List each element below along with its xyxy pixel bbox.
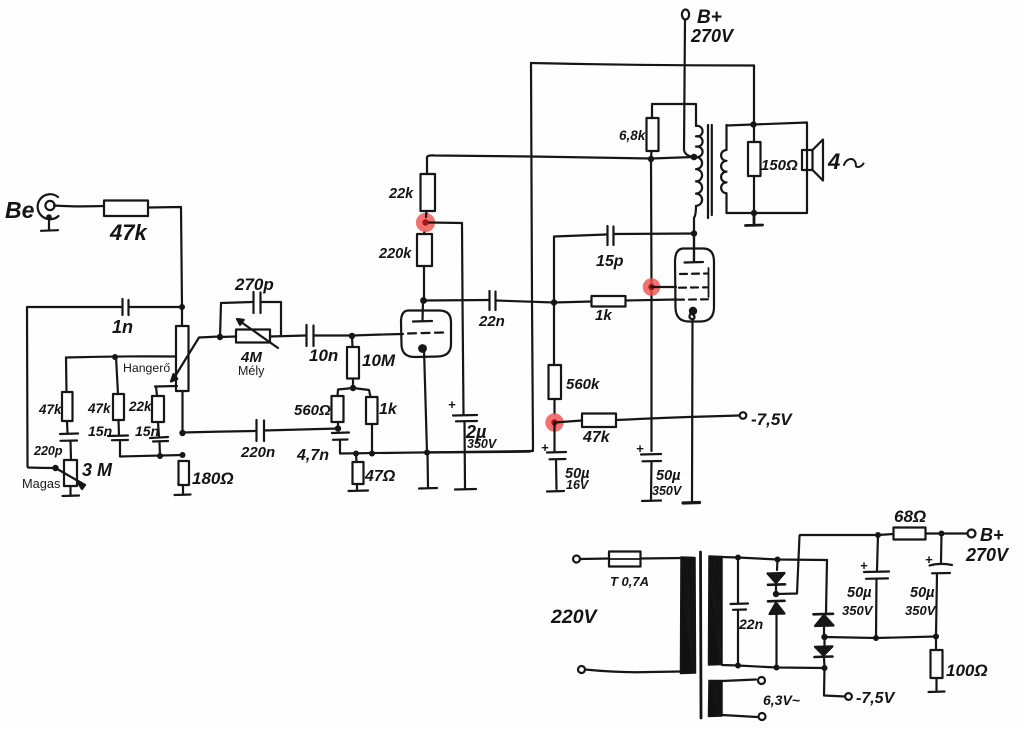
wire bias filter rail	[825, 637, 937, 639]
svg-text:16V: 16V	[566, 478, 590, 492]
wire g2 tap	[652, 286, 677, 288]
svg-text:22n: 22n	[738, 616, 763, 632]
wire bass loop top	[220, 302, 252, 337]
svg-text:-7,5V: -7,5V	[856, 690, 896, 707]
wire mains bottom to primary	[585, 670, 681, 673]
svg-text:B+: B+	[980, 525, 1004, 545]
resistor 22k branch3	[128, 386, 177, 422]
terminal heater top	[758, 677, 765, 684]
svg-text:+: +	[448, 397, 456, 412]
resistor 150ohm	[748, 125, 798, 213]
node 22k-220k red highlight	[416, 213, 435, 232]
wire decoupling node to 2u cap	[429, 223, 464, 415]
wire 4M to 10n	[270, 336, 306, 337]
resistor 10M	[347, 336, 396, 388]
capacitor 22n coupling	[478, 291, 505, 330]
capacitor 270p	[234, 275, 274, 313]
junction bottom rail right	[180, 452, 186, 458]
svg-text:6,8k: 6,8k	[619, 128, 647, 143]
ground V2 cathode	[683, 501, 700, 505]
wire V1 plate to coupling cap	[424, 299, 490, 302]
capacitor 50u 350V psu B	[905, 534, 952, 637]
svg-text:Mély: Mély	[238, 364, 265, 378]
junction grid node	[349, 333, 355, 339]
svg-text:47k: 47k	[109, 220, 148, 245]
terminal B+ 270V top	[682, 7, 735, 46]
svg-text:Magas: Magas	[22, 476, 60, 491]
capacitor 50u 350V psu A	[842, 535, 889, 638]
svg-text:22k: 22k	[388, 186, 414, 202]
capacitor 220n	[240, 420, 275, 461]
capacitor 15n branch2	[88, 420, 128, 456]
wire doubler output to B rail	[776, 535, 800, 594]
wire HV top rail	[722, 557, 827, 560]
junction 50u-a top	[875, 532, 881, 538]
ground speaker circuit	[746, 213, 763, 226]
ground treble pot	[63, 486, 80, 496]
node screen grid red highlight	[643, 278, 661, 296]
svg-text:47k: 47k	[87, 401, 112, 416]
wire 10n to grid node	[314, 334, 353, 336]
svg-text:270p: 270p	[234, 275, 274, 294]
junction volume bottom	[179, 430, 185, 436]
junction bass node	[217, 334, 223, 340]
terminal -7.5V bias	[740, 412, 747, 419]
capacitor 50u 16V	[541, 423, 590, 493]
svg-text:350V: 350V	[652, 484, 683, 498]
junction 4.7n-47ohm	[353, 451, 359, 457]
node A junction	[179, 304, 185, 310]
capacitor 4.7n	[296, 433, 349, 465]
junction transformer tap	[691, 154, 698, 161]
wire bias to terminal	[824, 668, 845, 697]
svg-text:350V: 350V	[467, 437, 498, 451]
capacitor 1n	[112, 299, 133, 337]
resistor 1k grid stopper	[554, 296, 677, 324]
wire mains top to fuse	[580, 557, 609, 560]
primary winding upper	[696, 105, 703, 158]
fuse T0.7A	[609, 552, 649, 590]
wire cathode bottom rail	[340, 451, 533, 454]
svg-text:Be: Be	[5, 197, 35, 223]
resistor 68ohm	[894, 507, 942, 540]
junction V2 grid circuit	[551, 299, 557, 305]
svg-text:560Ω: 560Ω	[294, 402, 331, 419]
svg-text:1k: 1k	[595, 307, 612, 324]
diode D2	[768, 601, 785, 668]
wire jack to R 47k	[54, 204, 104, 207]
svg-text:B+: B+	[697, 7, 722, 28]
wire V2 cathode to ground	[691, 319, 694, 501]
junction V1 plate	[420, 297, 427, 304]
resistor 47k input	[104, 201, 148, 217]
junction speaker bottom	[751, 210, 757, 216]
svg-text:15p: 15p	[596, 253, 624, 270]
capacitor 220p	[33, 421, 78, 460]
secondary winding	[721, 125, 726, 213]
svg-text:22k: 22k	[128, 399, 153, 414]
terminal mains top	[573, 556, 580, 563]
resistor 47k bias	[555, 414, 740, 447]
svg-text:6,3V~: 6,3V~	[763, 692, 800, 708]
ground V1 cathode	[419, 453, 437, 489]
wire R47k to node A	[148, 207, 182, 307]
diode D4	[815, 637, 833, 668]
resistor 47k branch2	[87, 357, 124, 420]
resistor 220k	[378, 232, 432, 301]
resistor 100ohm	[931, 637, 988, 681]
ground 100ohm	[929, 678, 945, 692]
diode D1	[768, 560, 786, 594]
svg-text:270V: 270V	[690, 26, 735, 46]
wire primary to V2 plate	[694, 206, 696, 262]
svg-text:47Ω: 47Ω	[364, 468, 396, 485]
junction bias rail end	[822, 665, 828, 671]
tube V1 triode	[401, 301, 451, 453]
svg-text:220k: 220k	[378, 246, 412, 262]
svg-text:15n: 15n	[88, 423, 112, 439]
wire 270p right	[261, 302, 281, 336]
junction secondary top	[750, 121, 756, 127]
wire 22n to grid junction	[496, 301, 555, 303]
wire HV bottom rail	[722, 665, 825, 668]
wire heater top	[722, 680, 756, 682]
transformer HV secondary winding	[709, 556, 723, 665]
input jack connector	[38, 194, 59, 231]
svg-text:150Ω: 150Ω	[761, 157, 798, 174]
primary winding lower	[696, 157, 702, 206]
svg-text:4,7n: 4,7n	[296, 447, 329, 464]
svg-text:Hangerő: Hangerő	[123, 361, 170, 375]
terminal heater bottom	[759, 713, 766, 720]
potentiometer volume Hangero	[171, 307, 219, 433]
junction 50u-b top	[939, 531, 945, 537]
junction dot treble wiper	[52, 465, 58, 471]
resistor 22k plate	[388, 157, 435, 217]
svg-text:220n: 220n	[240, 444, 275, 461]
svg-text:3 M: 3 M	[82, 460, 113, 480]
junction 22n psu bottom	[735, 663, 741, 669]
resistor 6.8k screen	[619, 104, 696, 159]
wire heater bottom	[722, 715, 757, 717]
svg-text:T 0,7A: T 0,7A	[610, 574, 649, 589]
wire rail right drop	[753, 66, 755, 125]
wire fuse to primary	[641, 557, 685, 560]
junction 1k bottom	[369, 451, 375, 457]
svg-text:-7,5V: -7,5V	[751, 410, 793, 429]
junction bottom rail	[157, 453, 163, 459]
wire coupling 220n left	[183, 431, 256, 433]
speaker 4ohm	[802, 140, 864, 181]
wire rail left drop	[427, 63, 533, 453]
transformer core	[708, 125, 712, 218]
wire to B+ terminal	[942, 532, 968, 534]
capacitor 22n psu	[731, 558, 764, 666]
svg-text:22n: 22n	[478, 313, 505, 330]
junction D3-D4 bias output	[821, 634, 827, 640]
svg-text:220V: 220V	[550, 606, 599, 628]
wire supply rail y156	[427, 155, 694, 158]
capacitor 10n	[307, 325, 339, 365]
tube V2 pentode	[675, 234, 714, 322]
junction anode 15p	[691, 230, 697, 236]
potentiometer 3M treble	[56, 460, 114, 489]
wire B+ feed	[684, 20, 694, 158]
svg-text:350V: 350V	[842, 603, 874, 618]
resistor 47k branch1	[38, 358, 73, 422]
svg-text:47k: 47k	[582, 429, 611, 446]
capacitor 2u 350V	[448, 397, 498, 488]
svg-text:47k: 47k	[38, 402, 63, 417]
svg-text:50µ: 50µ	[656, 468, 681, 484]
wire screen vertical	[650, 159, 653, 451]
wire upper rail y64	[531, 63, 754, 66]
potentiometer 4M bass	[220, 319, 278, 366]
svg-text:4: 4	[827, 149, 840, 174]
wire tone top rail	[66, 356, 176, 357]
resistor 560ohm	[294, 388, 353, 429]
svg-text:100Ω: 100Ω	[946, 661, 988, 680]
transformer mains primary winding	[681, 557, 696, 674]
svg-text:220p: 220p	[33, 444, 63, 458]
junction 100ohm top	[933, 634, 939, 640]
junction 560 bottom	[335, 425, 341, 431]
junction 50u-a bottom	[873, 635, 879, 641]
resistor 1k cathode branch	[353, 388, 398, 453]
svg-text:270V: 270V	[965, 545, 1010, 565]
node bias junction red highlight	[545, 413, 563, 431]
resistor 180ohm	[179, 461, 234, 488]
svg-text:560k: 560k	[566, 376, 600, 393]
svg-text:50µ: 50µ	[847, 585, 872, 601]
junction D1-D2 output	[773, 591, 779, 597]
wire grid node to V1 grid	[352, 334, 403, 336]
svg-text:10M: 10M	[362, 351, 396, 370]
transformer heater winding	[709, 681, 723, 717]
junction 22n psu top	[735, 555, 741, 561]
ground 180ohm	[175, 485, 191, 495]
junction cathode rail	[424, 450, 430, 456]
terminal B+ 270V psu	[965, 525, 1010, 565]
capacitor 50u 350V screen	[636, 441, 683, 501]
svg-text:1k: 1k	[379, 401, 398, 418]
wire 1n left branch	[27, 307, 123, 468]
svg-text:350V: 350V	[905, 603, 937, 618]
resistor 560k	[549, 303, 601, 415]
wire 220n to 560ohm node	[264, 429, 338, 431]
junction 10M bottom	[350, 385, 356, 391]
terminal -7.5V psu	[845, 693, 852, 700]
transformer mains core	[699, 552, 702, 718]
capacitor 15n branch3	[135, 422, 168, 456]
svg-text:15n: 15n	[135, 423, 159, 439]
junction screen node	[648, 156, 654, 162]
svg-text:180Ω: 180Ω	[192, 469, 234, 488]
junction D1 top	[775, 557, 781, 563]
ground 2u cap	[455, 488, 476, 491]
ground 47ohm	[349, 484, 369, 491]
junction top rail branch2	[112, 354, 118, 360]
svg-text:1n: 1n	[112, 317, 133, 337]
junction D2 bottom	[774, 665, 780, 671]
terminal mains bottom	[578, 666, 585, 673]
svg-text:10n: 10n	[309, 346, 338, 365]
wire speaker loop top	[727, 123, 808, 214]
wire B+ dc rail	[800, 534, 894, 535]
resistor 47ohm	[353, 454, 396, 486]
svg-text:68Ω: 68Ω	[894, 507, 926, 526]
wire tone bottom rail	[120, 455, 183, 457]
capacitor 15p feedback	[554, 226, 694, 303]
svg-text:+: +	[860, 558, 868, 573]
wire 1n right to node A	[129, 306, 183, 308]
diode D3	[814, 560, 834, 637]
svg-text:50µ: 50µ	[910, 585, 935, 601]
